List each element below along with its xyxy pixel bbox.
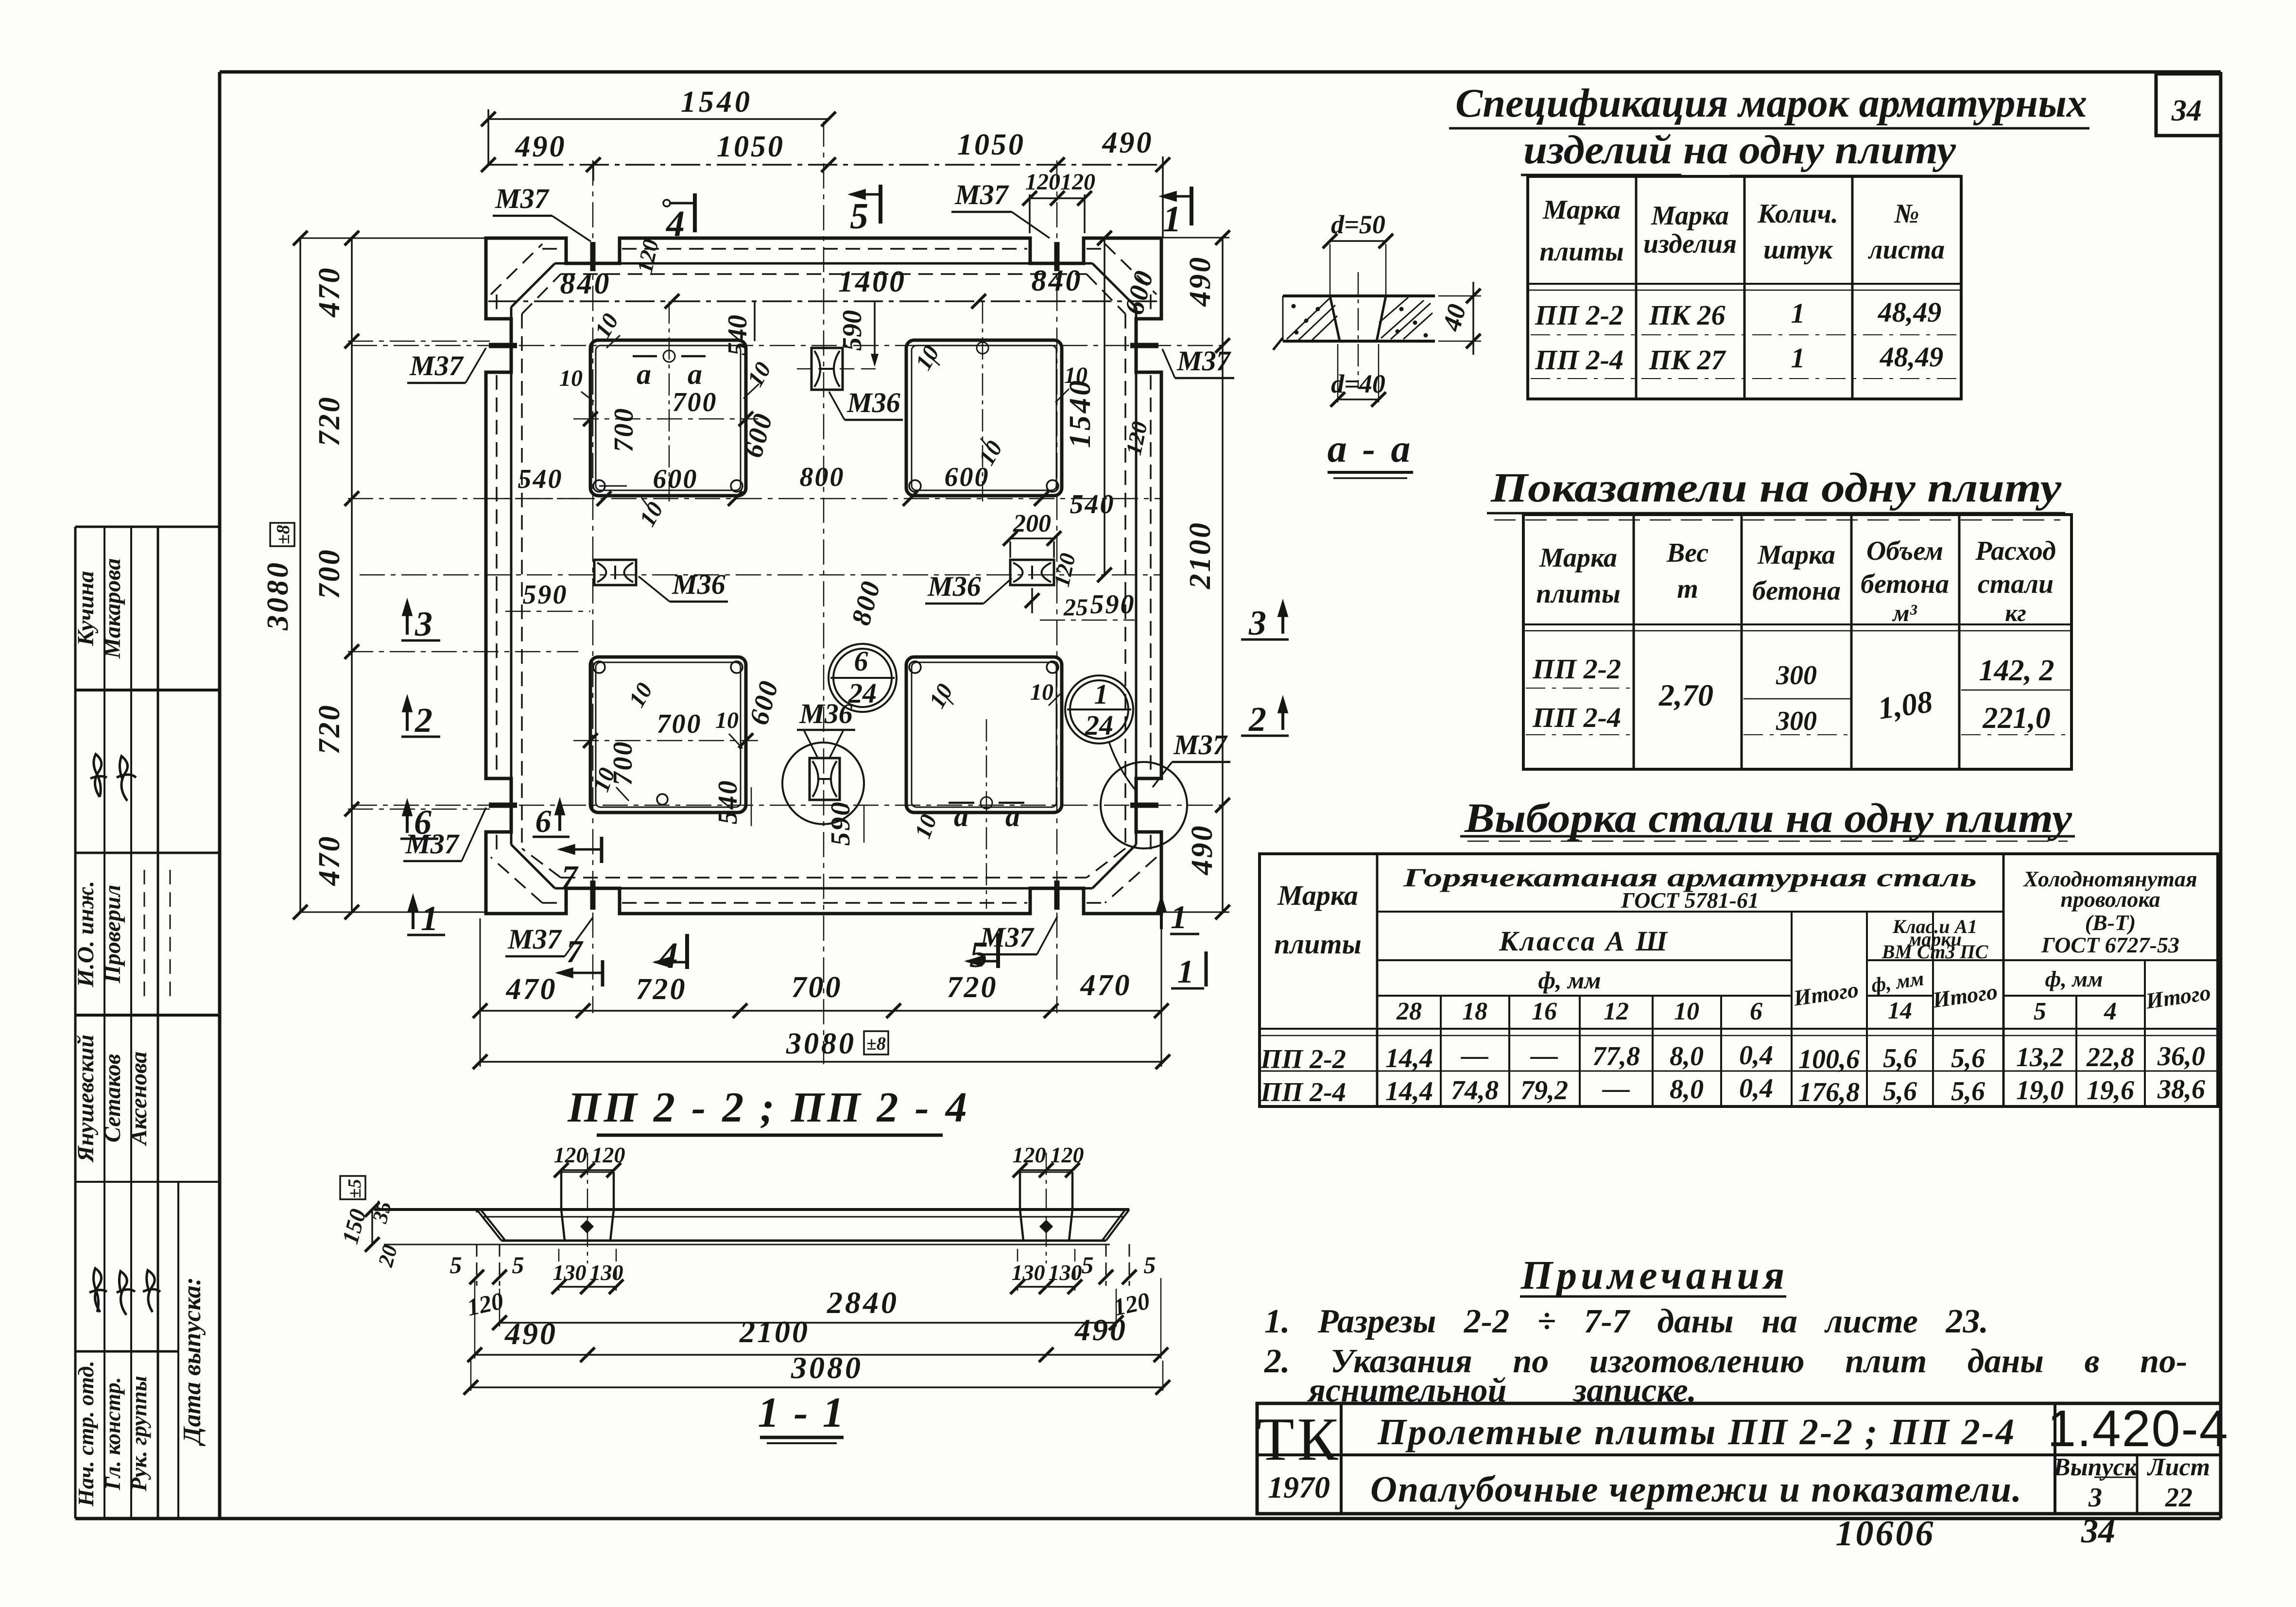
section mark 1 top-right (1161, 187, 1191, 240)
svg-text:7: 7 (562, 859, 579, 895)
svg-text:5,6: 5,6 (1883, 1076, 1917, 1106)
svg-text:М37: М37 (495, 183, 550, 214)
svg-text:540: 540 (1070, 489, 1115, 519)
svg-text:3080: 3080 (786, 1027, 856, 1060)
svg-text:700: 700 (609, 407, 639, 452)
svg-text:ГОСТ 5781-61: ГОСТ 5781-61 (1621, 888, 1759, 913)
dim 3080 left (261, 231, 308, 919)
centreline horizontal notch axis upper (352, 345, 1229, 346)
svg-text:18: 18 (1462, 998, 1487, 1025)
М36 label mid-left (639, 569, 728, 602)
svg-text:Рук. группы: Рук. группы (126, 1376, 151, 1492)
svg-text:470: 470 (313, 835, 346, 886)
svg-text:ПП 2 - 2 ; ПП 2 - 4: ПП 2 - 2 ; ПП 2 - 4 (567, 1084, 970, 1131)
svg-text:120: 120 (592, 1142, 625, 1167)
svg-text:d=50: d=50 (1331, 210, 1385, 239)
svg-text:Марка: Марка (1651, 201, 1729, 231)
svg-text:490: 490 (515, 130, 567, 163)
svg-text:1: 1 (421, 899, 438, 938)
svg-text:38,6: 38,6 (2157, 1074, 2205, 1105)
М36 label and funnel bottom-centre (797, 698, 855, 757)
svg-text:6: 6 (854, 645, 868, 677)
svg-text:Нач. стр. отд.: Нач. стр. отд. (73, 1361, 98, 1507)
svg-text:ПП 2-2: ПП 2-2 (1260, 1044, 1346, 1074)
svg-text:5: 5 (2034, 998, 2046, 1025)
svg-text:a: a (1005, 800, 1020, 832)
svg-text:1,08: 1,08 (1876, 684, 1935, 726)
svg-text:7: 7 (567, 934, 584, 969)
svg-text:Янушевский: Янушевский (73, 1035, 99, 1163)
svg-text:М37: М37 (954, 179, 1009, 210)
svg-text:0,4: 0,4 (1739, 1040, 1773, 1071)
svg-text:М37: М37 (1176, 345, 1231, 377)
svg-text:М36: М36 (799, 698, 853, 729)
М37 label right-lower (1153, 729, 1230, 787)
svg-text:100,6: 100,6 (1798, 1044, 1860, 1074)
svg-text:ВМ Ст3 ПС: ВМ Ст3 ПС (1882, 941, 1989, 963)
svg-text:10: 10 (1064, 363, 1088, 388)
svg-text:10: 10 (924, 679, 958, 712)
svg-text:10: 10 (1674, 998, 1699, 1025)
svg-text:10: 10 (1030, 679, 1053, 705)
section mark 2 left (401, 697, 440, 740)
dim chain 470 720 700 720 470 left (298, 231, 578, 919)
stamp row: И.О. инж. Проверил (73, 881, 125, 987)
svg-text:700: 700 (792, 971, 843, 1004)
svg-text:Колич.: Колич. (1757, 199, 1838, 229)
section mark 1 left-bottom (407, 896, 445, 938)
svg-text:1050: 1050 (957, 128, 1025, 161)
svg-text:120: 120 (1025, 169, 1060, 195)
svg-text:ПК 27: ПК 27 (1649, 344, 1726, 376)
dim 2840 (492, 1285, 1123, 1330)
svg-text:490: 490 (1074, 1313, 1127, 1347)
dim 5 gaps at slab ends (450, 1244, 1156, 1286)
svg-text:20: 20 (373, 1243, 402, 1270)
svg-text:м³: м³ (1892, 599, 1917, 626)
plate inner rib line (511, 263, 1136, 888)
svg-text:Показатели на одну плиту: Показатели на одну плиту (1490, 464, 2062, 511)
centreline vertical middle (823, 121, 825, 1064)
section 1-1 slab body (374, 1210, 1129, 1244)
svg-text:6: 6 (535, 804, 552, 839)
svg-text:2: 2 (414, 701, 432, 740)
title: Показатели на одну плиту (1490, 464, 2062, 511)
svg-text:±8: ±8 (273, 525, 293, 544)
svg-text:22: 22 (2165, 1483, 2192, 1513)
svg-text:48,49: 48,49 (1878, 296, 1942, 328)
svg-text:1.420-4: 1.420-4 (2047, 1400, 2229, 1457)
dim 590 mid-left (505, 580, 590, 611)
dim 150 35 20 left of section (337, 1176, 402, 1270)
svg-text:470: 470 (506, 973, 557, 1006)
svg-text:14,4: 14,4 (1385, 1076, 1433, 1106)
svg-text:Итого: Итого (2144, 980, 2212, 1013)
detail a-a slab band (1273, 296, 1435, 350)
section mark 7 bottom (558, 934, 603, 986)
М36 label mid-right (925, 570, 1012, 604)
svg-text:77,8: 77,8 (1592, 1041, 1640, 1071)
dim 120 120 at top-right notch (1022, 169, 1095, 233)
svg-text:5,6: 5,6 (1951, 1043, 1985, 1073)
svg-text:600: 600 (1119, 266, 1160, 318)
svg-text:ф, мм: ф, мм (2045, 967, 2103, 991)
dim 1540 right interior (1064, 231, 1112, 582)
svg-text:130: 130 (1049, 1260, 1082, 1285)
plate hidden edge dashed (inner) (522, 274, 1125, 878)
svg-text:590: 590 (1090, 589, 1136, 620)
dim 200 above mid-right socket (1003, 510, 1061, 558)
svg-text:720: 720 (636, 973, 687, 1006)
document numbers under block (1836, 1513, 2116, 1554)
svg-text:листа: листа (1868, 235, 1945, 265)
detail a-a hatching left (1287, 298, 1337, 340)
svg-text:И.О. инж.: И.О. инж. (73, 881, 99, 987)
svg-text:840: 840 (1032, 264, 1083, 297)
М37 label left-upper (407, 348, 486, 383)
svg-text:6: 6 (1750, 998, 1762, 1025)
svg-text:490: 490 (504, 1316, 557, 1351)
svg-text:800: 800 (846, 577, 887, 628)
svg-text:720: 720 (313, 396, 346, 447)
svg-text:±5: ±5 (345, 1179, 365, 1198)
svg-text:25: 25 (1063, 593, 1088, 621)
dim 120 verticals near ends (465, 1287, 1152, 1321)
svg-text:1: 1 (1791, 297, 1805, 329)
left attestation stamp grid (75, 527, 220, 1519)
dim chain 490 2100 490 right (1161, 230, 1230, 919)
svg-text:5: 5 (450, 1251, 462, 1279)
svg-text:5,6: 5,6 (1951, 1076, 1985, 1106)
svg-text:0,4: 0,4 (1739, 1073, 1773, 1104)
section mark 7 interior (560, 837, 602, 895)
indicators table grid (1523, 515, 2072, 769)
mid dim chain 540 600 800 600 540 (486, 462, 1161, 519)
М37 label top-right (951, 179, 1050, 238)
opening BR (906, 657, 1062, 812)
svg-text:700: 700 (313, 548, 346, 599)
detail a-a dim d=40 (1330, 344, 1386, 407)
svg-text:490: 490 (1184, 256, 1217, 307)
section 1-1 anchor socket left (561, 1153, 614, 1263)
svg-text:1050: 1050 (717, 130, 785, 163)
svg-text:Сетаков: Сетаков (100, 1054, 125, 1142)
svg-text:200: 200 (1013, 510, 1051, 537)
svg-text:700: 700 (673, 387, 718, 417)
svg-text:3: 3 (414, 605, 432, 643)
М36 socket mid-left (594, 560, 636, 585)
section mark 2 right (1241, 698, 1289, 739)
svg-text:стали: стали (1978, 569, 2054, 599)
title block Выпуск 3 (2053, 1453, 2138, 1513)
svg-text:№: № (1894, 199, 1919, 229)
svg-text:Марка: Марка (1277, 880, 1358, 911)
svg-text:130: 130 (590, 1260, 623, 1285)
detail bubble 1/24 (1065, 675, 1135, 790)
svg-text:4: 4 (658, 935, 678, 976)
svg-text:Макарова: Макарова (100, 558, 125, 659)
centreline horizontal notch axis lower (352, 805, 1229, 806)
svg-text:Класса А Ш: Класса А Ш (1499, 925, 1669, 957)
detail a-a dim 40 (1436, 282, 1481, 355)
svg-text:74,8: 74,8 (1451, 1075, 1499, 1106)
svg-text:М36: М36 (672, 569, 725, 600)
svg-text:Марка: Марка (1757, 540, 1835, 570)
svg-text:142, 2: 142, 2 (1979, 654, 2054, 687)
М37 label bottom-right (978, 916, 1057, 954)
svg-text:М36: М36 (927, 570, 981, 602)
dim 3080 under section (464, 1350, 1170, 1395)
М37 anchor bars in notches (489, 242, 1158, 910)
svg-text:М37: М37 (409, 350, 464, 381)
stamp row: Янушевский Сетаков Аксенова (73, 1035, 152, 1163)
svg-text:1970: 1970 (1268, 1470, 1330, 1504)
opening TL dim 700 horizontal (573, 387, 758, 452)
svg-text:8,0: 8,0 (1670, 1041, 1704, 1071)
svg-text:ПП 2-4: ПП 2-4 (1535, 344, 1623, 376)
М37 label top-left (493, 183, 591, 242)
svg-text:ПП 2-2: ПП 2-2 (1532, 653, 1621, 685)
indicators table text (1532, 536, 2056, 736)
svg-text:10: 10 (635, 498, 669, 531)
svg-text:120: 120 (632, 237, 663, 275)
svg-text:24: 24 (1085, 709, 1113, 741)
dim 120 120 over left socket (554, 1142, 625, 1177)
section 1-1 anchor socket right (1020, 1153, 1072, 1263)
title block grid (1257, 1403, 2221, 1514)
svg-text:22,8: 22,8 (2086, 1042, 2134, 1072)
centreline horizontal middle (360, 574, 1161, 576)
dim 130 130 under left socket (552, 1249, 623, 1294)
svg-text:19,0: 19,0 (2016, 1075, 2064, 1106)
section mark 5 top (850, 185, 880, 237)
opening BR 10 labels (910, 679, 1062, 842)
svg-text:1: 1 (1177, 953, 1194, 990)
svg-text:300: 300 (1776, 706, 1817, 736)
dim 540 bottom interior (713, 779, 751, 827)
svg-text:—: — (1602, 1073, 1630, 1104)
svg-text:13,2: 13,2 (2016, 1042, 2064, 1072)
svg-text:28: 28 (1396, 998, 1422, 1025)
dim 25 and 120 at mid-right socket (1025, 551, 1088, 621)
svg-text:Расход: Расход (1975, 536, 2056, 566)
dim chain 490 1050 1050 490 top (481, 126, 1170, 238)
opening BL (590, 657, 746, 812)
svg-text:470: 470 (1080, 969, 1132, 1002)
label a-a (1328, 428, 1414, 478)
svg-text:600: 600 (738, 409, 779, 461)
svg-text:10: 10 (559, 365, 583, 391)
svg-text:40: 40 (1436, 301, 1471, 334)
title block Лист 22 (2147, 1453, 2210, 1513)
svg-text:540: 540 (713, 779, 743, 825)
section mark 5 bottom (967, 933, 998, 975)
corner sheet-number box 34 (2156, 74, 2221, 136)
svg-text:ф, мм: ф, мм (1870, 968, 1925, 997)
section mark 3 right (1241, 602, 1289, 642)
svg-text:М36: М36 (846, 387, 900, 418)
notes heading Примечания (1520, 1253, 1789, 1298)
section mark 4 bottom (655, 934, 687, 976)
detail a-a dim d=50 (1323, 210, 1393, 294)
svg-text:Дата выпуска:: Дата выпуска: (178, 1277, 206, 1446)
section mark 1 bottom-right upper (1157, 897, 1199, 935)
svg-text:34: 34 (2081, 1513, 2115, 1550)
dim 800 rotated central (846, 577, 887, 628)
svg-text:5: 5 (969, 934, 988, 975)
svg-text:36,0: 36,0 (2157, 1041, 2205, 1071)
svg-text:плиты: плиты (1274, 928, 1362, 960)
svg-text:1540: 1540 (681, 86, 753, 119)
opening BL 10 labels (588, 678, 742, 801)
svg-text:Пролетные плиты ПП 2-2 ; ПП 2: Пролетные плиты ПП 2-2 ; ПП 2-4 (1377, 1412, 2014, 1452)
svg-text:1: 1 (1163, 199, 1181, 240)
svg-text:130: 130 (553, 1260, 587, 1285)
М37 label left-lower (403, 808, 486, 861)
steel table data rows (1260, 1040, 2205, 1107)
svg-text:бетона: бетона (1752, 576, 1841, 606)
svg-text:m: m (1677, 574, 1698, 604)
svg-text:79,2: 79,2 (1520, 1075, 1568, 1106)
svg-text:Марка: Марка (1539, 543, 1617, 573)
dim 540 top interior (723, 301, 755, 356)
plate outer outline with edge notches (486, 238, 1161, 914)
svg-text:2,70: 2,70 (1658, 678, 1713, 712)
svg-text:a: a (954, 800, 968, 832)
М37 label bottom-left (505, 917, 593, 956)
dim 120 120 over right socket (1013, 1142, 1084, 1177)
svg-text:5: 5 (1082, 1251, 1094, 1279)
detail bubble 6/24 (829, 644, 897, 712)
М37 label right-upper (1162, 345, 1234, 378)
dim 840 1400 840 (488, 264, 1161, 309)
svg-text:16: 16 (1532, 998, 1557, 1025)
svg-text:Марка: Марка (1542, 195, 1621, 225)
svg-text:Выборка стали на одну плиту: Выборка стали на одну плиту (1464, 795, 2072, 841)
svg-text:штук: штук (1763, 235, 1833, 265)
svg-text:ПК 26: ПК 26 (1649, 299, 1726, 331)
svg-text:221,0: 221,0 (1982, 702, 2051, 735)
svg-text:12: 12 (1604, 998, 1629, 1025)
svg-text:600: 600 (653, 464, 698, 494)
svg-text:10606: 10606 (1836, 1514, 1935, 1554)
dim 590 bottom interior (826, 801, 864, 846)
svg-text:Вес: Вес (1666, 538, 1709, 568)
svg-text:10: 10 (715, 708, 739, 733)
svg-text:±8: ±8 (866, 1034, 886, 1054)
svg-text:5: 5 (1144, 1251, 1156, 1279)
svg-text:840: 840 (560, 267, 611, 300)
svg-text:—: — (1461, 1040, 1488, 1071)
section mark 1 bottom-right lower (1171, 951, 1206, 990)
svg-text:2: 2 (1248, 700, 1266, 739)
svg-text:176,8: 176,8 (1798, 1077, 1860, 1107)
svg-text:Объем: Объем (1866, 536, 1943, 566)
svg-text:Опалубочные чертежи и показат: Опалубочные чертежи и показатели. (1370, 1469, 2021, 1510)
svg-text:изделия: изделия (1643, 229, 1737, 259)
svg-text:3080: 3080 (791, 1350, 863, 1385)
stamp: Дата выпуска (178, 1277, 206, 1446)
section mark 6 left (400, 801, 438, 842)
dim 590 right interior (1040, 589, 1136, 620)
svg-text:4: 4 (665, 204, 685, 244)
svg-text:кг: кг (2005, 599, 2026, 626)
stamp empty dash rows (144, 870, 170, 1001)
dim 130 130 under right socket (1010, 1249, 1082, 1294)
section 1-1 heading ПП2-2 ПП2-4 (567, 1084, 970, 1135)
svg-text:1: 1 (1094, 678, 1108, 710)
svg-text:ПП 2-2: ПП 2-2 (1535, 299, 1623, 331)
opening BL dim 700 (573, 709, 758, 786)
svg-text:120: 120 (1051, 1142, 1084, 1167)
svg-text:700: 700 (657, 709, 702, 739)
svg-text:490: 490 (1186, 824, 1219, 876)
svg-text:М37: М37 (507, 923, 562, 955)
svg-text:ТК: ТК (1257, 1406, 1341, 1473)
stamp row: Кучина (73, 558, 125, 659)
svg-text:1400: 1400 (838, 265, 906, 298)
svg-text:720: 720 (313, 704, 346, 755)
dim chain 470 720 700 720 470 bottom (473, 918, 1169, 1067)
svg-text:5: 5 (512, 1251, 524, 1279)
svg-text:490: 490 (1102, 126, 1154, 159)
svg-text:130: 130 (1012, 1260, 1045, 1285)
svg-text:Кучина: Кучина (73, 571, 99, 646)
plate hidden edge dashed (outer) (491, 244, 1157, 903)
svg-text:ф, мм: ф, мм (1538, 967, 1601, 994)
svg-text:1. Разрезы 2-2 ÷ 7-7 даны: 1. Разрезы 2-2 ÷ 7-7 даны на листе 23. (1264, 1303, 1988, 1340)
opening TR axis mark (977, 301, 988, 501)
svg-text:ПП 2-4: ПП 2-4 (1532, 702, 1621, 733)
svg-text:470: 470 (313, 266, 346, 318)
label 1-1 (758, 1389, 846, 1443)
detail a-a centreline (1358, 272, 1359, 389)
svg-text:ГОСТ 6727-53: ГОСТ 6727-53 (2041, 933, 2179, 957)
svg-text:плиты: плиты (1539, 237, 1623, 267)
svg-text:800: 800 (800, 462, 845, 492)
dim 490 2100 490 under section (467, 1278, 1168, 1362)
svg-text:плиты: плиты (1536, 579, 1620, 609)
stamp signatures lower (89, 1268, 160, 1315)
svg-text:ПП 2-4: ПП 2-4 (1260, 1077, 1346, 1107)
svg-text:8,0: 8,0 (1670, 1074, 1704, 1105)
svg-text:1: 1 (1171, 899, 1187, 935)
centreline vertical notch axis right (1056, 160, 1058, 1013)
dim 3080 bottom (473, 1027, 1170, 1069)
svg-text:48,49: 48,49 (1880, 341, 1944, 373)
note 1 (1264, 1303, 1988, 1340)
stamp row: job titles (73, 1361, 151, 1507)
svg-text:3: 3 (1248, 604, 1266, 642)
svg-text:Проверил: Проверил (100, 885, 125, 984)
section mark 4 top (663, 193, 695, 244)
svg-text:540: 540 (723, 315, 753, 356)
svg-text:Лист: Лист (2147, 1453, 2210, 1481)
steel table header text (1274, 863, 2212, 1025)
detail a-a hatching right (1379, 297, 1433, 339)
opening TL 10 chamfer labels (559, 309, 777, 531)
opening BR axis mark a-a (949, 719, 1024, 909)
svg-text:590: 590 (523, 580, 568, 610)
svg-text:Выпуск: Выпуск (2053, 1453, 2138, 1481)
svg-text:4: 4 (2104, 998, 2117, 1025)
svg-text:14,4: 14,4 (1385, 1043, 1433, 1073)
svg-text:6: 6 (414, 803, 432, 842)
svg-text:300: 300 (1776, 660, 1817, 691)
svg-text:—: — (1530, 1040, 1558, 1071)
svg-text:34: 34 (2171, 94, 2202, 127)
svg-text:Гл. констр.: Гл. констр. (100, 1377, 125, 1491)
